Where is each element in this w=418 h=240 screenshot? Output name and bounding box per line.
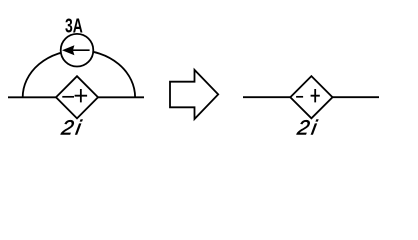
current source 3A	[61, 34, 94, 67]
dependent voltage source 2i (left)	[56, 76, 98, 118]
wire (parallel arc branch)	[23, 50, 135, 97]
transformation arrow	[170, 70, 218, 119]
svg-text:2i: 2i	[59, 116, 84, 139]
wire (left circuit horizontal)	[8, 96, 144, 98]
wire (right circuit horizontal)	[243, 96, 379, 98]
svg-text:3A: 3A	[65, 14, 83, 37]
dependent voltage source 2i (right)	[290, 76, 332, 118]
svg-text:2i: 2i	[295, 116, 320, 139]
